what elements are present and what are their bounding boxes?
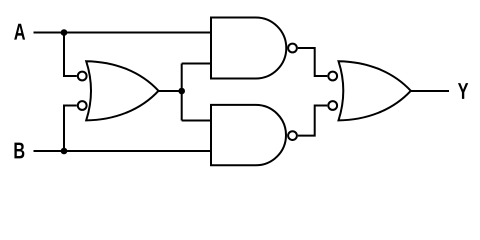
wire node to U2 input — [182, 63, 211, 65]
wire Y output — [411, 90, 449, 92]
nand U2 body — [211, 18, 286, 79]
bubble U4 input 1 — [328, 72, 337, 81]
label A — [14, 24, 25, 40]
bubble U1 input 2 — [78, 101, 87, 110]
wire A input — [34, 32, 212, 34]
wire B branch to NOR input 2 — [64, 106, 77, 152]
wire U1 output to node — [159, 90, 182, 92]
bubble U3 output — [288, 131, 297, 140]
junction node on A — [61, 29, 68, 36]
wire B input — [34, 150, 212, 152]
bubble U1 input 1 — [78, 72, 87, 81]
label B — [14, 143, 24, 159]
bubble U4 input 2 — [328, 101, 337, 110]
bubble U2 output — [288, 44, 297, 53]
or-gate U4 body — [339, 61, 411, 120]
wire node vertical — [181, 64, 183, 121]
junction node U1 output — [178, 88, 185, 95]
nand U3 body — [211, 105, 286, 165]
wire node to U3 input — [182, 120, 211, 122]
or-gate U1 (NOR with inverted inputs) body — [86, 61, 158, 120]
wire A branch to NOR input 1 — [64, 33, 77, 77]
label Y — [458, 83, 468, 99]
wire U3 output to U4 input 2 — [298, 106, 327, 136]
wire U2 output to U4 input 1 — [298, 48, 327, 76]
junction node on B — [61, 148, 68, 155]
